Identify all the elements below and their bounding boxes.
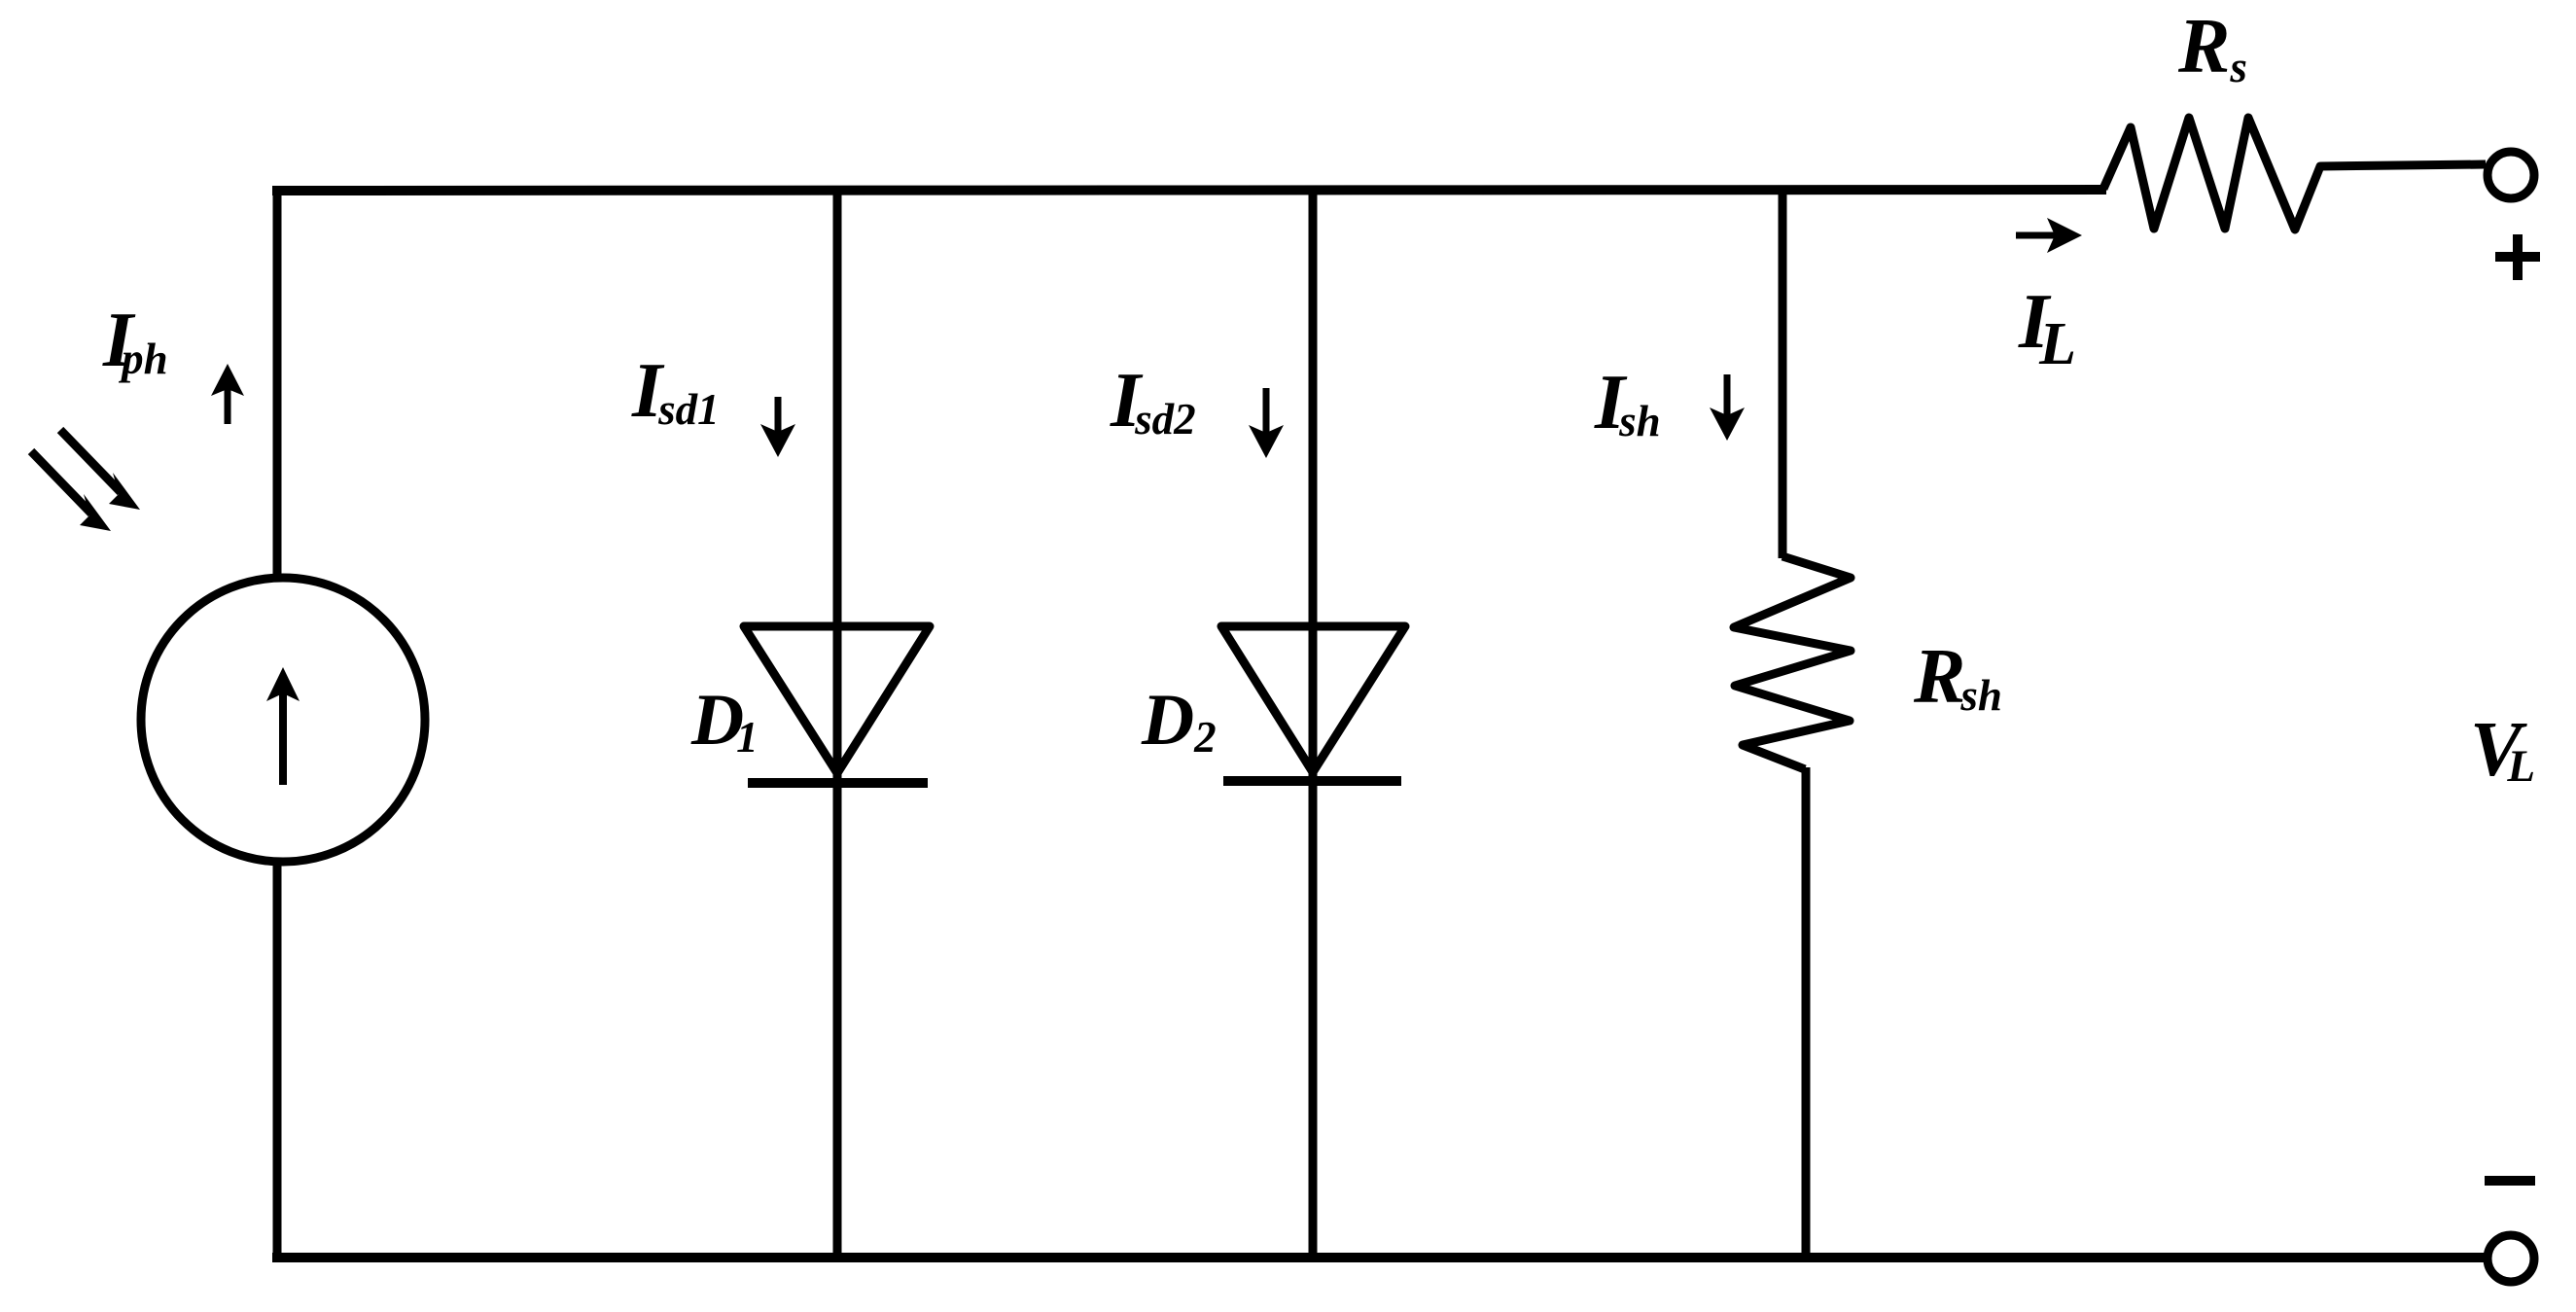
Isd1 direction arrow bbox=[760, 397, 795, 457]
wire Rsh branch vertical lower bbox=[1802, 767, 1811, 1258]
current source Iph circle bbox=[141, 578, 425, 862]
wire D2 branch vertical bbox=[1309, 186, 1318, 1258]
wire bottom horizontal bus bbox=[272, 1253, 2486, 1262]
diode D1 bbox=[744, 626, 930, 783]
light arrow 2 bbox=[31, 451, 111, 531]
minus sign bbox=[2485, 1176, 2535, 1186]
wire left vertical upper bbox=[273, 186, 282, 580]
resistor Rsh bbox=[1734, 556, 1851, 769]
resistor Rs bbox=[2103, 118, 2486, 230]
Isd2 direction arrow bbox=[1249, 388, 1284, 458]
wire Rsh branch vertical upper bbox=[1779, 186, 1787, 558]
IL direction arrow bbox=[2016, 218, 2082, 253]
terminal - output node circle bbox=[2488, 1235, 2534, 1282]
wire D1 branch vertical bbox=[833, 186, 842, 1258]
current source internal up arrow bbox=[266, 667, 300, 785]
light arrow 1 bbox=[60, 430, 140, 510]
Iph direction arrow bbox=[211, 364, 244, 424]
plus sign bbox=[2495, 234, 2540, 280]
wire left vertical lower bbox=[273, 860, 282, 1261]
wire top horizontal bus bbox=[272, 190, 2106, 191]
diode D2 bbox=[1221, 626, 1405, 781]
terminal + output node circle bbox=[2488, 152, 2534, 198]
Ish direction arrow bbox=[1710, 374, 1745, 441]
